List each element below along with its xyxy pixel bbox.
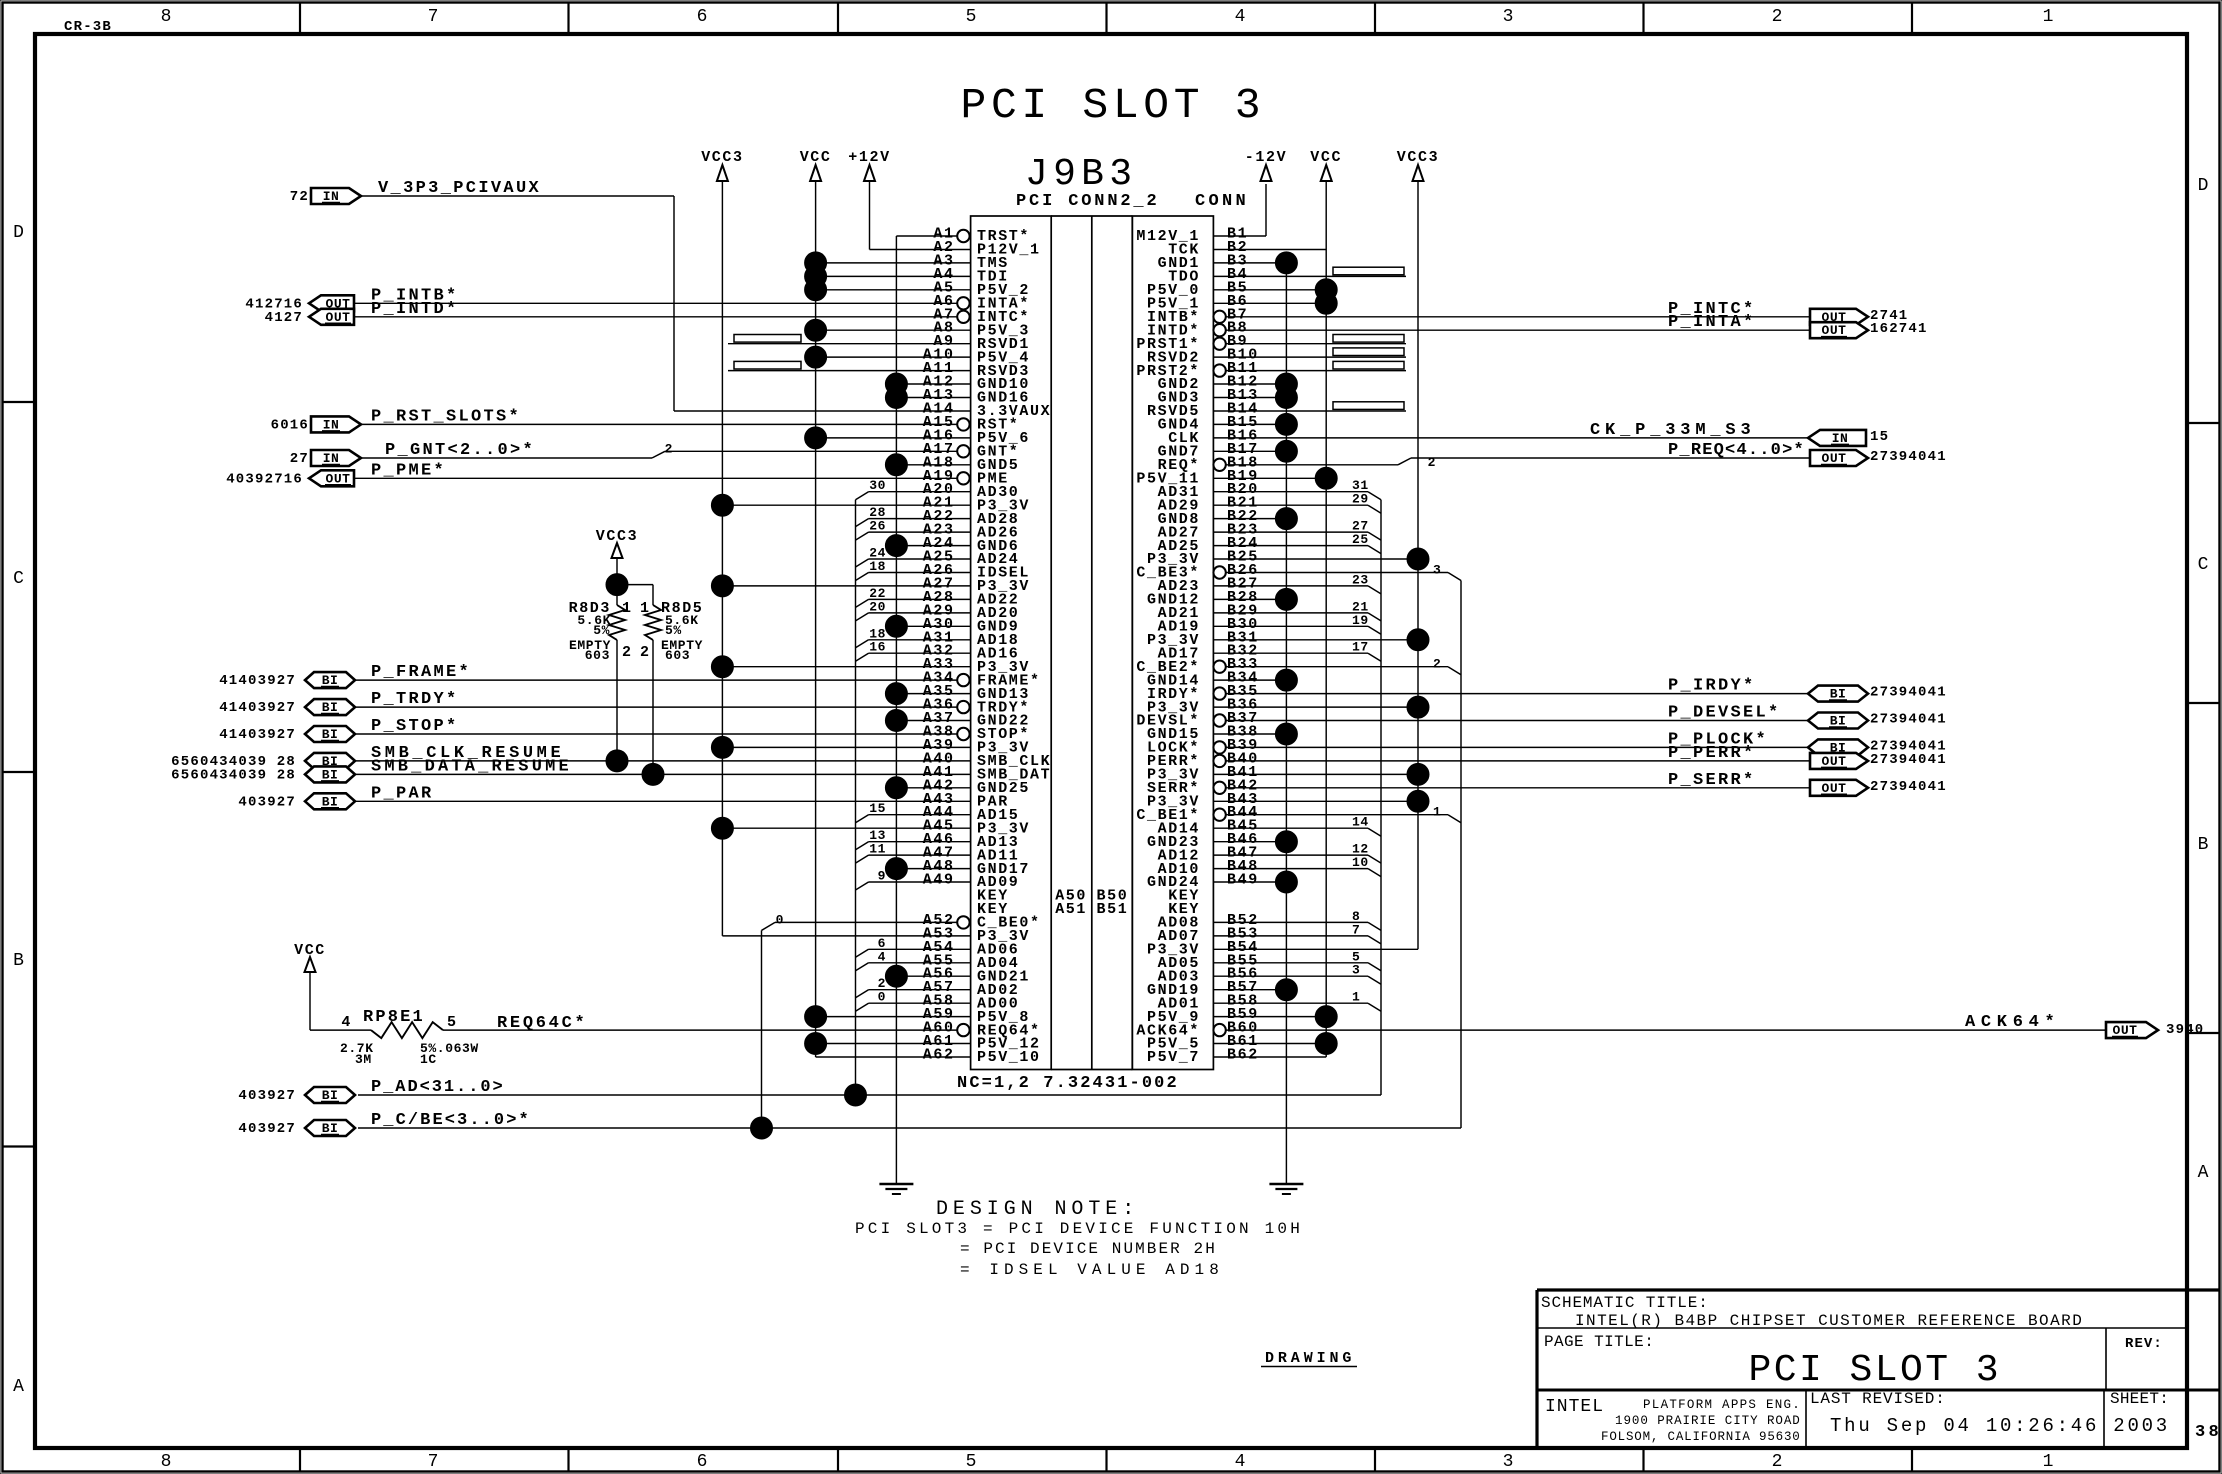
svg-text:403927: 403927 bbox=[238, 794, 296, 810]
svg-text:C: C bbox=[2198, 555, 2209, 575]
svg-text:27394041: 27394041 bbox=[1870, 685, 1947, 701]
svg-text:2: 2 bbox=[1433, 657, 1441, 672]
svg-text:5%: 5% bbox=[665, 623, 682, 638]
svg-text:23: 23 bbox=[1352, 572, 1369, 587]
svg-text:162741: 162741 bbox=[1870, 321, 1928, 337]
svg-text:603: 603 bbox=[585, 648, 610, 663]
svg-text:27394041: 27394041 bbox=[1870, 712, 1947, 728]
svg-text:2: 2 bbox=[1772, 1452, 1783, 1472]
svg-text:3: 3 bbox=[1433, 563, 1441, 578]
svg-text:C: C bbox=[13, 569, 24, 589]
svg-text:5: 5 bbox=[966, 7, 977, 27]
svg-text:REV:: REV: bbox=[2125, 1336, 2163, 1352]
svg-text:19: 19 bbox=[1352, 613, 1369, 628]
svg-text:P_INTA*: P_INTA* bbox=[1668, 313, 1756, 332]
svg-text:D: D bbox=[13, 223, 24, 243]
svg-text:8: 8 bbox=[161, 7, 172, 27]
svg-text:27: 27 bbox=[290, 451, 309, 467]
svg-text:P_INTD*: P_INTD* bbox=[371, 300, 459, 319]
svg-text:27394041: 27394041 bbox=[1870, 779, 1947, 795]
svg-text:NC=1,2 7.32431-002: NC=1,2 7.32431-002 bbox=[957, 1074, 1179, 1093]
svg-text:27394041: 27394041 bbox=[1870, 449, 1947, 465]
svg-text:5%: 5% bbox=[593, 623, 610, 638]
svg-text:2: 2 bbox=[1428, 455, 1436, 470]
svg-text:1: 1 bbox=[1433, 805, 1441, 820]
svg-text:6: 6 bbox=[697, 1452, 708, 1472]
svg-text:27394041: 27394041 bbox=[1870, 752, 1947, 768]
svg-text:9: 9 bbox=[878, 869, 886, 884]
svg-text:5: 5 bbox=[966, 1452, 977, 1472]
svg-text:41403927: 41403927 bbox=[219, 700, 296, 716]
svg-text:P_PME*: P_PME* bbox=[371, 461, 446, 480]
svg-text:603: 603 bbox=[665, 648, 690, 663]
svg-text:A: A bbox=[2198, 1163, 2209, 1183]
svg-text:A51: A51 bbox=[1055, 901, 1087, 918]
svg-text:FOLSOM, CALIFORNIA 95630: FOLSOM, CALIFORNIA 95630 bbox=[1601, 1430, 1801, 1444]
svg-text:P_SERR*: P_SERR* bbox=[1668, 771, 1756, 790]
svg-text:SHEET:: SHEET: bbox=[2110, 1390, 2172, 1408]
svg-text:7: 7 bbox=[428, 1452, 439, 1472]
svg-text:4: 4 bbox=[341, 1014, 352, 1031]
svg-text:2: 2 bbox=[640, 644, 651, 661]
svg-text:PCI SLOT 3: PCI SLOT 3 bbox=[1749, 1349, 2002, 1392]
svg-text:0: 0 bbox=[776, 912, 784, 927]
svg-text:6: 6 bbox=[697, 7, 708, 27]
svg-text:15: 15 bbox=[1870, 429, 1889, 445]
svg-text:P5V_7: P5V_7 bbox=[1147, 1049, 1200, 1066]
svg-text:B: B bbox=[2198, 835, 2209, 855]
svg-text:3: 3 bbox=[1503, 7, 1514, 27]
svg-text:3: 3 bbox=[1352, 963, 1360, 978]
svg-text:403927: 403927 bbox=[238, 1088, 296, 1104]
svg-text:B51: B51 bbox=[1097, 901, 1129, 918]
svg-text:REQ64C*: REQ64C* bbox=[497, 1014, 587, 1033]
svg-text:DRAWING: DRAWING bbox=[1265, 1350, 1353, 1367]
svg-text:INTEL(R) B4BP CHIPSET CUSTOMER: INTEL(R) B4BP CHIPSET CUSTOMER REFERENCE… bbox=[1575, 1312, 2085, 1330]
svg-text:DESIGN NOTE:: DESIGN NOTE: bbox=[936, 1198, 1139, 1221]
svg-text:SCHEMATIC TITLE:: SCHEMATIC TITLE: bbox=[1541, 1294, 1711, 1312]
svg-text:7: 7 bbox=[428, 7, 439, 27]
svg-text:RP8E1: RP8E1 bbox=[363, 1008, 425, 1027]
svg-text:CONN: CONN bbox=[1195, 192, 1248, 211]
svg-text:1: 1 bbox=[1352, 990, 1360, 1005]
svg-text:P_DEVSEL*: P_DEVSEL* bbox=[1668, 704, 1781, 723]
svg-text:P_PAR: P_PAR bbox=[371, 784, 434, 803]
svg-text:= IDSEL VALUE AD18: = IDSEL VALUE AD18 bbox=[960, 1261, 1222, 1279]
svg-text:4: 4 bbox=[1235, 7, 1246, 27]
svg-text:A49: A49 bbox=[923, 872, 955, 889]
svg-text:41403927: 41403927 bbox=[219, 727, 296, 743]
svg-text:2: 2 bbox=[665, 441, 673, 456]
svg-text:CR-3B: CR-3B bbox=[64, 19, 112, 35]
svg-text:26: 26 bbox=[869, 519, 886, 534]
svg-text:14: 14 bbox=[1352, 815, 1369, 830]
svg-text:P_TRDY*: P_TRDY* bbox=[371, 690, 459, 709]
svg-text:LAST REVISED:: LAST REVISED: bbox=[1810, 1390, 1948, 1408]
svg-text:17: 17 bbox=[1352, 640, 1369, 655]
svg-text:SMB_DATA_RESUME: SMB_DATA_RESUME bbox=[371, 757, 571, 776]
svg-text:PCI SLOT 3: PCI SLOT 3 bbox=[961, 81, 1266, 130]
svg-text:3M: 3M bbox=[355, 1052, 372, 1067]
svg-text:4: 4 bbox=[1235, 1452, 1246, 1472]
svg-text:P_IRDY*: P_IRDY* bbox=[1668, 677, 1756, 696]
svg-text:P5V_10: P5V_10 bbox=[977, 1049, 1041, 1066]
svg-text:PCI SLOT3 = PCI DEVICE FUNCTIO: PCI SLOT3 = PCI DEVICE FUNCTION 10H bbox=[855, 1220, 1303, 1238]
svg-text:PCI CONN2_2: PCI CONN2_2 bbox=[1016, 192, 1159, 211]
svg-text:1: 1 bbox=[640, 600, 651, 617]
svg-text:15: 15 bbox=[869, 801, 886, 816]
svg-text:B49: B49 bbox=[1227, 872, 1259, 889]
svg-text:P_GNT<2..0>*: P_GNT<2..0>* bbox=[385, 441, 535, 460]
svg-text:11: 11 bbox=[869, 842, 886, 857]
svg-text:A62: A62 bbox=[923, 1047, 955, 1064]
svg-text:38: 38 bbox=[2195, 1423, 2221, 1442]
svg-text:1900 PRAIRIE CITY ROAD: 1900 PRAIRIE CITY ROAD bbox=[1615, 1414, 1801, 1428]
svg-text:4: 4 bbox=[878, 949, 886, 964]
svg-text:1: 1 bbox=[2043, 1452, 2054, 1472]
svg-text:6016: 6016 bbox=[271, 417, 309, 433]
svg-text:6560434039 28: 6560434039 28 bbox=[171, 767, 296, 783]
svg-text:B: B bbox=[13, 951, 24, 971]
svg-text:B62: B62 bbox=[1227, 1047, 1259, 1064]
svg-text:D: D bbox=[2198, 176, 2209, 196]
svg-text:0: 0 bbox=[878, 990, 886, 1005]
svg-text:8: 8 bbox=[161, 1452, 172, 1472]
svg-text:Thu Sep 04 10:26:46 2003: Thu Sep 04 10:26:46 2003 bbox=[1830, 1415, 2170, 1437]
svg-text:7: 7 bbox=[1352, 922, 1360, 937]
svg-text:30: 30 bbox=[869, 478, 886, 493]
svg-text:V_3P3_PCIVAUX: V_3P3_PCIVAUX bbox=[378, 179, 541, 198]
svg-text:403927: 403927 bbox=[238, 1121, 296, 1137]
svg-text:P_RST_SLOTS*: P_RST_SLOTS* bbox=[371, 407, 521, 426]
svg-text:5: 5 bbox=[447, 1014, 458, 1031]
svg-text:P_FRAME*: P_FRAME* bbox=[371, 663, 471, 682]
svg-text:72: 72 bbox=[290, 189, 309, 205]
svg-text:PAGE TITLE:: PAGE TITLE: bbox=[1544, 1333, 1657, 1351]
svg-text:1: 1 bbox=[622, 600, 633, 617]
svg-text:CK_P_33M_S3: CK_P_33M_S3 bbox=[1590, 421, 1753, 440]
svg-text:41403927: 41403927 bbox=[219, 673, 296, 689]
svg-text:40392716: 40392716 bbox=[226, 471, 303, 487]
svg-text:16: 16 bbox=[869, 640, 886, 655]
svg-text:29: 29 bbox=[1352, 492, 1369, 507]
svg-text:1C: 1C bbox=[420, 1052, 437, 1067]
svg-text:= PCI DEVICE NUMBER 2H: = PCI DEVICE NUMBER 2H bbox=[960, 1240, 1218, 1258]
svg-text:P_PERR*: P_PERR* bbox=[1668, 744, 1756, 763]
svg-text:25: 25 bbox=[1352, 532, 1369, 547]
svg-text:10: 10 bbox=[1352, 855, 1369, 870]
svg-text:2: 2 bbox=[622, 644, 633, 661]
svg-text:A: A bbox=[13, 1377, 24, 1397]
svg-text:3: 3 bbox=[1503, 1452, 1514, 1472]
svg-text:2: 2 bbox=[1772, 7, 1783, 27]
svg-text:4127: 4127 bbox=[265, 310, 303, 326]
svg-text:P_C/BE<3..0>*: P_C/BE<3..0>* bbox=[371, 1111, 531, 1130]
svg-text:3940: 3940 bbox=[2166, 1022, 2204, 1038]
svg-text:P_STOP*: P_STOP* bbox=[371, 717, 459, 736]
svg-text:1: 1 bbox=[2043, 7, 2054, 27]
svg-text:P_AD<31..0>: P_AD<31..0> bbox=[371, 1078, 505, 1097]
svg-text:18: 18 bbox=[869, 559, 886, 574]
svg-text:PLATFORM APPS ENG.: PLATFORM APPS ENG. bbox=[1643, 1398, 1801, 1412]
svg-text:P_REQ<4..0>*: P_REQ<4..0>* bbox=[1668, 441, 1806, 460]
svg-text:INTEL: INTEL bbox=[1545, 1397, 1605, 1417]
svg-text:20: 20 bbox=[869, 599, 886, 614]
